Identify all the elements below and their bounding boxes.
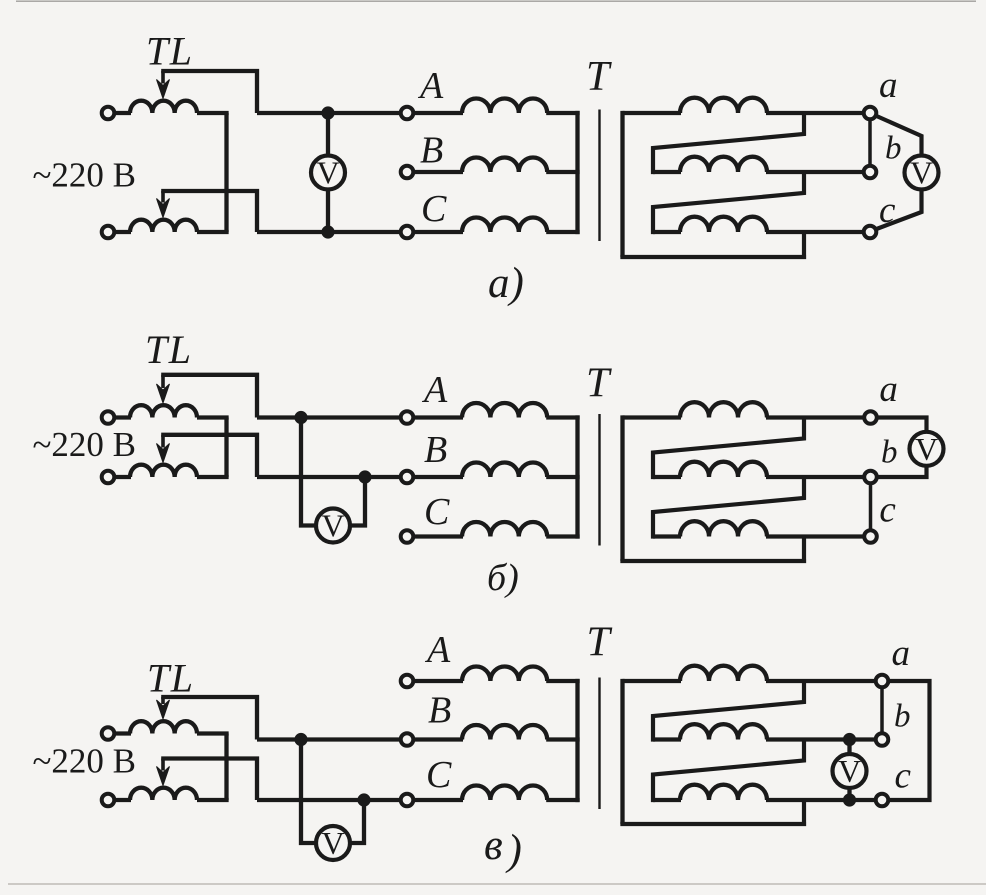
wire (197, 731, 229, 735)
voltmeter V4 (910, 432, 944, 466)
svg-text:a: a (879, 65, 898, 106)
wire zig 1 (653, 681, 804, 742)
svg-text:TL: TL (146, 29, 194, 74)
svg-text:T: T (586, 54, 612, 100)
wire (766, 111, 864, 115)
node junction C (357, 793, 370, 806)
svg-text:V: V (321, 508, 344, 544)
terminal C (401, 226, 414, 239)
wire (546, 737, 579, 741)
svg-text:): ) (505, 827, 522, 874)
TL v terminal 1 (102, 727, 115, 740)
wire zig 2 (653, 477, 804, 539)
wire (197, 230, 229, 234)
wire (546, 534, 579, 538)
primary winding C (462, 786, 547, 801)
svg-text:c: c (895, 756, 912, 797)
wire (546, 170, 579, 174)
wire wiper1 (161, 697, 257, 740)
wire (766, 679, 876, 683)
wire (114, 230, 131, 234)
node junction A (294, 411, 307, 424)
wire (546, 475, 579, 479)
wire secondary bus (620, 111, 624, 257)
wire primary star bus (575, 679, 579, 802)
svg-text:A: A (421, 369, 448, 411)
svg-text:a: a (892, 633, 911, 674)
wire row C feed (257, 230, 400, 234)
wire (653, 475, 681, 479)
terminal a (864, 107, 877, 120)
wire (623, 415, 682, 419)
svg-text:V: V (910, 155, 933, 191)
svg-text:A: A (417, 65, 444, 107)
terminal C (401, 530, 414, 543)
terminal B (401, 471, 414, 484)
wire row A feed (257, 111, 400, 115)
terminal c (864, 530, 877, 543)
svg-text:V: V (915, 431, 938, 467)
terminal b (864, 471, 877, 484)
svg-text:a: a (879, 369, 898, 410)
node junction A (321, 106, 334, 119)
node junction c right (843, 793, 856, 806)
wire (197, 798, 229, 802)
wire row B feed (257, 737, 400, 741)
secondary winding a (680, 666, 767, 681)
svg-text:b: b (881, 435, 898, 471)
wire primary star bus (575, 415, 579, 538)
wire link a-b (868, 121, 872, 164)
svg-text:V: V (316, 155, 339, 191)
terminal A (401, 107, 414, 120)
voltmeter V2 (905, 156, 939, 190)
svg-text:B: B (424, 429, 447, 471)
secondary winding b (680, 462, 767, 477)
wire (413, 534, 463, 538)
terminal B (401, 166, 414, 179)
primary winding B (462, 462, 547, 477)
wire secondary bus (620, 679, 624, 824)
svg-text:б): б) (487, 557, 519, 599)
wire zig 1 (653, 113, 804, 174)
wire (766, 415, 865, 419)
terminal A (401, 411, 414, 424)
wire V1 bottom (326, 189, 330, 233)
secondary winding b (680, 724, 767, 739)
wire primary star bus (575, 111, 579, 234)
primary winding A (462, 403, 547, 418)
voltmeter V1 (311, 156, 345, 190)
TL a winding 2 (130, 220, 197, 232)
terminal a (864, 411, 877, 424)
wire (197, 111, 229, 115)
svg-text:TL: TL (145, 327, 193, 372)
wire c to V2 (877, 188, 922, 230)
svg-text:C: C (424, 491, 450, 533)
TL b terminal 2 (102, 471, 115, 484)
wire V3 left (301, 418, 316, 526)
wire row C feed (257, 798, 400, 802)
svg-text:V: V (321, 825, 344, 861)
voltmeter V5 (316, 826, 350, 860)
wire TL join (224, 734, 228, 801)
wire row B feed (257, 475, 400, 479)
TL v terminal 2 (102, 794, 115, 807)
wire secondary bus (620, 415, 624, 561)
wire (114, 475, 131, 479)
wire (766, 230, 864, 234)
TL b winding 2 (130, 465, 197, 477)
bottom scan line (8, 883, 986, 885)
wire V3 right (351, 477, 366, 526)
TL a winding 1 (130, 101, 197, 113)
secondary winding c (680, 521, 767, 536)
TL b terminal 1 (102, 411, 115, 424)
wire (413, 415, 463, 419)
TL a wiper arrow 2 (161, 191, 165, 203)
wire (766, 475, 865, 479)
primary winding B (462, 725, 547, 740)
terminal b (876, 733, 889, 746)
wire zig 3 bottom (620, 232, 806, 257)
svg-text:V: V (838, 753, 861, 789)
wire (114, 111, 131, 115)
voltmeter V3 (316, 509, 350, 543)
wire wiper2 (161, 191, 257, 232)
wire (413, 679, 463, 683)
TL b wiper arrow 2 (161, 435, 165, 448)
secondary winding b (680, 157, 767, 172)
wire (197, 415, 229, 419)
primary winding C (462, 217, 547, 232)
svg-text:C: C (426, 754, 452, 796)
wire (653, 230, 681, 234)
svg-text:в: в (484, 822, 503, 869)
secondary winding a (680, 402, 767, 417)
TL v wiper arrow 2 (161, 759, 165, 771)
node junction b right (843, 733, 856, 746)
wire TL join (224, 418, 228, 478)
wire (766, 798, 876, 802)
svg-text:TL: TL (147, 656, 195, 701)
wire (413, 798, 463, 802)
wire wiper2 (161, 759, 257, 801)
wire zig 3 bottom (620, 537, 806, 562)
wire TL join (224, 113, 228, 232)
svg-text:T: T (586, 361, 612, 407)
svg-text:b: b (894, 699, 911, 735)
wire V1 top (326, 113, 330, 157)
svg-text:а): а) (488, 260, 524, 307)
wire zig 1 (653, 418, 804, 480)
TL a terminal 1 (102, 107, 115, 120)
TL b winding 1 (130, 405, 197, 417)
wire link a-b (880, 689, 884, 732)
transformer a core (598, 110, 600, 242)
secondary winding c (680, 785, 767, 800)
terminal B (401, 733, 414, 746)
TL b wiper arrow 1 (161, 375, 165, 388)
wire (653, 534, 681, 538)
wire V5 left (301, 740, 316, 844)
svg-text:~220 В: ~220 В (33, 156, 137, 195)
svg-text:b: b (885, 131, 902, 167)
TL a wiper arrow 1 (161, 71, 165, 84)
node junction B (358, 470, 371, 483)
wire (546, 230, 579, 234)
wire a to V2 (877, 116, 922, 158)
wire (546, 415, 579, 419)
TL a terminal 2 (102, 226, 115, 239)
wire zig 2 (653, 172, 804, 234)
primary winding A (462, 98, 547, 113)
wire wiper2 (161, 435, 257, 477)
wire (413, 111, 463, 115)
svg-text:A: A (424, 629, 451, 671)
svg-text:T: T (587, 620, 613, 666)
wire zig 2 (653, 740, 804, 803)
wire (766, 534, 865, 538)
wire (653, 170, 681, 174)
terminal b (864, 166, 877, 179)
svg-text:B: B (420, 130, 443, 172)
terminal A (401, 675, 414, 688)
wire V6 top (847, 740, 851, 756)
wire (413, 475, 463, 479)
wire (766, 737, 876, 741)
wire zig 3 bottom (620, 800, 806, 824)
voltmeter V6 (833, 754, 867, 788)
transformer v core (598, 678, 600, 810)
wire wiper1 (161, 71, 257, 113)
secondary winding c (680, 217, 767, 232)
wire (413, 230, 463, 234)
wire (766, 170, 864, 174)
wire b to V4 (877, 465, 927, 477)
terminal c (864, 226, 877, 239)
TL v winding 2 (130, 788, 197, 800)
wire (546, 679, 579, 683)
transformer b core (598, 414, 600, 546)
wire (114, 415, 131, 419)
wire row A feed (257, 415, 400, 419)
wire V6 bottom (847, 787, 851, 800)
wire loop a-c (889, 681, 930, 800)
TL v winding 1 (130, 721, 197, 733)
wire (546, 111, 579, 115)
svg-text:~220 В: ~220 В (33, 425, 137, 464)
TL v wiper arrow 1 (161, 697, 165, 704)
wire (114, 731, 131, 735)
node junction C (321, 225, 334, 238)
svg-text:C: C (421, 188, 447, 230)
svg-text:c: c (879, 490, 896, 531)
wire link b-c (869, 485, 873, 529)
wire (653, 737, 681, 741)
wire (197, 475, 229, 479)
top scan line (16, 0, 976, 2)
primary winding A (462, 667, 547, 682)
terminal C (401, 794, 414, 807)
wire (623, 679, 682, 683)
primary winding B (462, 157, 547, 172)
primary winding C (462, 522, 547, 537)
wire (546, 798, 579, 802)
svg-text:B: B (428, 690, 451, 732)
wire a to V4 (877, 418, 927, 433)
node junction B (294, 733, 307, 746)
terminal a (876, 675, 889, 688)
wire (653, 798, 681, 802)
terminal c (876, 794, 889, 807)
wire wiper1 (161, 375, 257, 418)
svg-text:~220 В: ~220 В (33, 742, 137, 781)
wire (623, 111, 682, 115)
wire (413, 170, 463, 174)
secondary winding a (680, 98, 767, 113)
wire V5 right (349, 800, 365, 843)
wire (413, 737, 463, 741)
wire (114, 798, 131, 802)
